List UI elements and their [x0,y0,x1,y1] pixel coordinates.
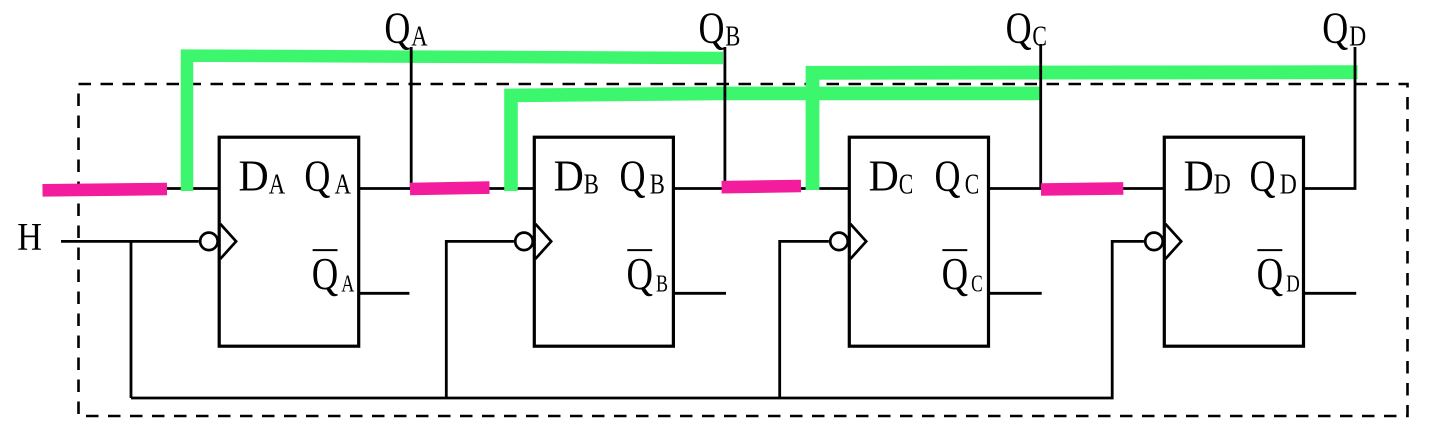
svg-text:D: D [1349,22,1366,53]
svg-text:Q: Q [935,151,961,200]
svg-text:D: D [1214,169,1231,200]
svg-text:Q: Q [384,4,410,53]
svg-text:C: C [971,272,983,298]
svg-text:Q: Q [1257,248,1284,299]
svg-text:B: B [656,272,668,298]
svg-text:D: D [1286,272,1300,298]
svg-text:Q: Q [304,151,330,200]
svg-text:A: A [411,22,428,53]
svg-text:Q: Q [627,248,654,299]
svg-text:Q: Q [942,248,969,299]
svg-text:Q: Q [312,248,339,299]
svg-text:A: A [341,272,355,298]
svg-text:D: D [554,151,584,200]
svg-text:D: D [1280,169,1297,200]
svg-text:Q: Q [620,151,646,200]
svg-text:Q: Q [1006,4,1032,53]
svg-text:D: D [869,151,899,200]
svg-text:B: B [725,22,740,53]
svg-text:D: D [1184,151,1214,200]
svg-text:B: B [650,169,665,200]
svg-text:A: A [335,169,352,200]
svg-text:C: C [899,169,914,200]
svg-text:Q: Q [1322,4,1348,53]
svg-text:D: D [239,151,269,200]
svg-text:C: C [1032,22,1047,53]
svg-text:B: B [584,169,599,200]
svg-text:Q: Q [1250,151,1276,200]
svg-text:H: H [17,216,42,259]
svg-text:C: C [965,169,980,200]
svg-text:Q: Q [699,4,725,53]
svg-text:A: A [269,169,286,200]
